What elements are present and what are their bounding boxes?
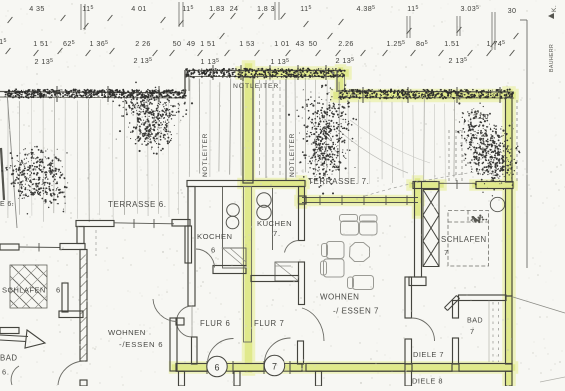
svg-text:7: 7 xyxy=(444,248,449,257)
svg-text:NOTLEITER: NOTLEITER xyxy=(202,133,209,177)
svg-text:FLUR 7: FLUR 7 xyxy=(254,319,284,328)
svg-text:1.51: 1.51 xyxy=(444,39,460,48)
svg-text:43: 43 xyxy=(296,39,305,48)
svg-text:SCHLAFEN: SCHLAFEN xyxy=(441,235,487,244)
svg-text:DIELE 7: DIELE 7 xyxy=(413,350,444,359)
svg-text:1 51: 1 51 xyxy=(33,39,49,48)
svg-text:KÜCHEN: KÜCHEN xyxy=(257,219,292,228)
svg-text:SCHLAFEN: SCHLAFEN xyxy=(2,286,46,295)
svg-text:1 01: 1 01 xyxy=(274,39,290,48)
svg-text:TERRASSE. 7.: TERRASSE. 7. xyxy=(308,177,369,186)
svg-text:1.83: 1.83 xyxy=(209,4,225,13)
svg-text:4 01: 4 01 xyxy=(131,4,147,13)
svg-text:7: 7 xyxy=(272,362,277,372)
svg-text:7: 7 xyxy=(470,327,475,336)
svg-text:-/ESSEN 6: -/ESSEN 6 xyxy=(119,340,163,349)
svg-text:-/ ESSEN 7: -/ ESSEN 7 xyxy=(333,307,379,316)
svg-text:KOCHEN: KOCHEN xyxy=(197,232,233,241)
svg-text:1 51: 1 51 xyxy=(200,39,216,48)
svg-text:50: 50 xyxy=(173,39,182,48)
svg-text:1 53: 1 53 xyxy=(239,39,255,48)
svg-text:50: 50 xyxy=(309,39,318,48)
svg-text:WOHNEN: WOHNEN xyxy=(320,293,359,302)
svg-text:24: 24 xyxy=(230,4,239,13)
svg-text:FLUR 6: FLUR 6 xyxy=(200,319,230,328)
svg-text:4 35: 4 35 xyxy=(29,4,45,13)
svg-text:BAD: BAD xyxy=(0,354,18,363)
svg-text:2 26: 2 26 xyxy=(135,39,151,48)
svg-text:2 00: 2 00 xyxy=(473,114,489,121)
svg-text:BAUHERR: BAUHERR xyxy=(549,44,555,72)
svg-text:49: 49 xyxy=(187,39,196,48)
svg-text:E 6.: E 6. xyxy=(0,201,14,208)
svg-text:30: 30 xyxy=(508,6,517,15)
svg-text:6: 6 xyxy=(211,246,216,255)
svg-text:DIELE 8: DIELE 8 xyxy=(412,377,443,386)
svg-text:6.: 6. xyxy=(2,368,10,377)
svg-text:K.: K. xyxy=(551,5,558,12)
svg-text:6: 6 xyxy=(56,286,61,295)
svg-text:BAD: BAD xyxy=(467,316,483,325)
svg-text:NOTLEITER: NOTLEITER xyxy=(233,83,279,90)
svg-text:WOHNEN: WOHNEN xyxy=(108,328,146,337)
svg-text:1.8 3: 1.8 3 xyxy=(257,4,275,13)
svg-text:7.: 7. xyxy=(273,229,281,238)
svg-text:6: 6 xyxy=(214,363,219,373)
svg-text:NOTLEITER: NOTLEITER xyxy=(289,133,296,177)
svg-text:TERRASSE 6.: TERRASSE 6. xyxy=(108,200,167,209)
